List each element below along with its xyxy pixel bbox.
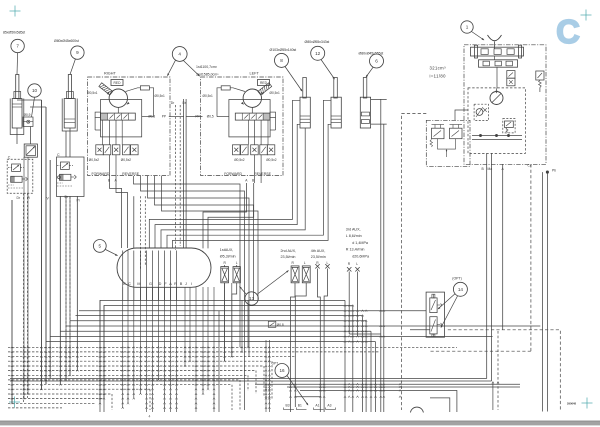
svg-text:321cm³: 321cm³ [430, 65, 447, 70]
svg-text:L: L [327, 261, 329, 265]
wire staircase right-unit [142, 129, 173, 131]
label 0,5x1 right-R [155, 94, 166, 98]
svg-text:FORWARD: FORWARD [92, 172, 110, 176]
wire [295, 397, 450, 412]
svg-text:A1: A1 [315, 404, 319, 408]
svg-text:Ø5,3l/min: Ø5,3l/min [220, 255, 236, 259]
svg-text:290648: 290648 [567, 402, 576, 406]
svg-text:1st1100,7cm²: 1st1100,7cm² [196, 65, 218, 69]
label 0,5x2 right-L [89, 158, 100, 162]
svg-text:B: B [180, 282, 183, 286]
pump assembly dashdot box [464, 45, 546, 165]
svg-text:M: M [137, 282, 140, 286]
wire corner right pair [10, 379, 492, 382]
port X 3rdR [347, 267, 351, 271]
label 0,5x2 left-R [266, 158, 277, 162]
svg-text:L: L [356, 262, 358, 266]
svg-text:RED: RED [260, 81, 268, 85]
wire long dashed [402, 114, 427, 411]
svg-text:E: E [123, 282, 126, 286]
servo sub [503, 119, 515, 133]
labels B3 B1 A1 A3 [286, 404, 332, 408]
valve block V2 [47, 153, 85, 203]
label OPT [452, 277, 462, 281]
cylinder CYL12 [331, 78, 341, 129]
wire 3rd aux corner stubs [349, 334, 381, 336]
wire [208, 183, 254, 248]
label R L 4th [316, 261, 328, 265]
svg-text:Ø0,5x1: Ø0,5x1 [155, 94, 166, 98]
wire [255, 383, 520, 385]
bracket B3 [283, 408, 294, 410]
label R L 1st [224, 261, 238, 265]
callout circle 16 [275, 364, 289, 378]
port X 4thR [315, 264, 319, 268]
wire bundle oval crossing [123, 251, 177, 301]
label 0,5x1 left-R [270, 91, 281, 95]
cylinder CYL8 [300, 78, 310, 129]
wire [300, 391, 457, 413]
label 0,3 PP right [148, 115, 166, 119]
svg-text:4th AUX,: 4th AUX, [311, 249, 326, 253]
svg-text:Ø0,5x2: Ø0,5x2 [121, 158, 132, 162]
leader line 9 [70, 59, 76, 75]
wire [41, 100, 43, 390]
port dot Pb [546, 171, 548, 173]
svg-text:REVERSE: REVERSE [254, 172, 271, 176]
label 3rdAUX block [346, 228, 370, 259]
callout circle 6 [370, 54, 384, 68]
svg-text:Ø0,5: Ø0,5 [207, 115, 214, 119]
footer gray bar [0, 421, 600, 426]
wire bus right droppers [345, 300, 376, 412]
wire [225, 265, 237, 267]
callout circle 10 [28, 84, 41, 97]
clutch bell [488, 35, 502, 49]
wire PP solid pair [184, 99, 187, 249]
svg-text:C: C [8, 156, 11, 160]
svg-text:RED: RED [114, 81, 122, 85]
wire bus mid horizontals [46, 300, 540, 341]
label 321cm3 [430, 65, 447, 70]
transmission gearbox [471, 45, 524, 88]
label 0,5x2 left-L [234, 158, 245, 162]
label RIGHT [104, 72, 116, 76]
valve at gearbox [507, 71, 515, 86]
cylinder CYL7 [10, 75, 24, 135]
charge pump sub [474, 104, 488, 120]
svg-text:2nd1585,0cm²: 2nd1585,0cm² [196, 72, 219, 76]
leader line 12 [321, 60, 336, 81]
label Pb [552, 169, 556, 173]
svg-text:(OPT): (OPT) [452, 277, 462, 281]
wire [49, 160, 51, 379]
aux valve 1R [221, 267, 229, 283]
wire [17, 127, 31, 145]
label 0,5x2 right-R [121, 158, 132, 162]
wire dashed right [430, 350, 531, 352]
svg-text:REVERSE: REVERSE [122, 172, 139, 176]
callout circle 14 [453, 282, 467, 296]
leader lines 13 [238, 270, 289, 295]
svg-text:23,5l/min: 23,5l/min [311, 255, 326, 259]
wire [232, 283, 237, 357]
junction ticks pair corner [492, 382, 499, 384]
label 80x45x555st [359, 52, 384, 56]
wire [546, 172, 548, 411]
svg-text:Ø0,3: Ø0,3 [148, 115, 155, 119]
wire [491, 153, 493, 381]
svg-text:B3: B3 [286, 404, 290, 408]
leader line 16 [287, 376, 309, 406]
pump circle [490, 89, 503, 105]
svg-text:OPT: OPT [272, 362, 279, 366]
valve block V1 [7, 156, 33, 201]
wire [371, 99, 387, 124]
callout circle 4 [172, 47, 187, 62]
cylinder CYL6 [360, 78, 370, 129]
svg-text:Ø80xØ55x343st: Ø80xØ55x343st [305, 40, 330, 44]
section letter C [556, 13, 580, 50]
label 85x50x585st [3, 31, 25, 35]
wire band dashed horizontals [8, 347, 457, 408]
label A B left [245, 178, 255, 182]
junction ticks band [11, 346, 271, 409]
leader line 8 [285, 67, 303, 93]
svg-text:J: J [185, 282, 187, 286]
label 1stAUX [220, 248, 236, 258]
svg-text:RIGHT: RIGHT [104, 72, 116, 76]
leader line 5 [106, 250, 119, 257]
svg-text:10: 10 [32, 88, 38, 93]
svg-text:9: 9 [76, 50, 79, 55]
junction ticks mid [265, 305, 401, 398]
wire [383, 124, 385, 412]
label 1st/2nd displacement [196, 65, 219, 76]
relief right [536, 71, 544, 92]
aux valve 2R [291, 266, 299, 283]
aux valve 2L [302, 266, 310, 283]
bracket A1 [313, 408, 323, 410]
wire [155, 124, 300, 248]
svg-text:L: L [236, 261, 238, 265]
wire [17, 100, 46, 107]
svg-text:C: C [57, 153, 60, 157]
leader line 10 [32, 97, 35, 117]
svg-text:4: 4 [149, 415, 151, 419]
page number 4 [149, 415, 151, 419]
label 103x55x140st [270, 48, 297, 52]
label 80x45x600st [54, 39, 79, 43]
pump dashed box [468, 88, 525, 153]
callout circle 9 [71, 46, 84, 59]
port X 3rdL [355, 267, 359, 271]
label FORWARD left [224, 172, 242, 176]
svg-text:d 1,4MPa: d 1,4MPa [352, 241, 369, 245]
tank letters [123, 282, 192, 286]
svg-text:I: I [191, 282, 192, 286]
label 80x55x343st [305, 40, 330, 44]
wire dashed OPT right [448, 330, 561, 410]
wire dashed Dr/Pi V1 [24, 193, 28, 402]
wire [66, 128, 70, 157]
leader line 6 [365, 67, 373, 78]
svg-text:3rd AUX,: 3rd AUX, [346, 228, 361, 232]
label FORWARD right [92, 172, 110, 176]
svg-text:B1: B1 [298, 404, 302, 408]
svg-text:4: 4 [178, 52, 181, 57]
check block X [24, 144, 37, 157]
label PP 0,5 left [195, 115, 214, 119]
indicator RED right [111, 80, 123, 86]
wire [59, 197, 61, 385]
tank oval [117, 248, 211, 287]
registration cross bottom-left [9, 397, 20, 408]
registration cross top-right [581, 10, 592, 21]
svg-text:FORWARD: FORWARD [224, 172, 242, 176]
wire [380, 99, 382, 412]
cylinder CYL9 [62, 75, 77, 132]
svg-text:L 8,6l/min: L 8,6l/min [346, 234, 362, 238]
wire [429, 390, 431, 392]
label Ca [528, 164, 532, 168]
left valve block of pump [426, 120, 470, 166]
port X 4thL [325, 264, 329, 268]
svg-text:5: 5 [99, 244, 102, 249]
svg-text:G: G [149, 282, 152, 286]
wire [291, 283, 307, 412]
wire [161, 128, 305, 248]
label LEFT [250, 72, 260, 76]
svg-text:85xØ50x585st: 85xØ50x585st [3, 31, 25, 35]
wire [116, 183, 128, 248]
aux valve 1L [233, 267, 240, 283]
port dots [472, 134, 522, 139]
svg-text:d20,6MPa: d20,6MPa [352, 254, 370, 258]
wire [542, 172, 544, 411]
label 2ndAUX [281, 249, 297, 259]
wire band verticals [12, 100, 269, 412]
wire [492, 383, 494, 411]
svg-text:Ø0,9: Ø0,9 [24, 113, 31, 117]
wire [287, 386, 520, 388]
wire pump-left-block [455, 110, 468, 120]
svg-text:6: 6 [375, 59, 378, 64]
wire band dashed corners [112, 361, 272, 410]
label ports B Ma A [482, 167, 505, 171]
registration cross bottom-right [567, 398, 592, 409]
wire PP stubs [169, 116, 203, 118]
wire bus left stubs [100, 300, 219, 412]
restrictor 0,9 [23, 113, 33, 127]
wire [110, 183, 122, 248]
label i=11/80 [430, 73, 447, 78]
wire [486, 153, 488, 378]
label REVERSE right [122, 172, 139, 176]
wire dashed short [497, 331, 499, 410]
callout circle 13 [245, 292, 258, 305]
svg-text:C: C [556, 13, 580, 50]
hydro motor unit RIGHT [88, 77, 170, 183]
OPT valve stack [426, 292, 444, 337]
leader line 1 [472, 32, 485, 42]
label REVERSE left [254, 172, 271, 176]
wire staircase [134, 176, 259, 410]
wire dashed Dr/Pi V2 [66, 197, 70, 381]
svg-text:8: 8 [280, 58, 283, 63]
wire [224, 283, 226, 361]
svg-text:Ø0,5x2: Ø0,5x2 [234, 158, 245, 162]
wire [410, 329, 430, 331]
callout circle 8 [275, 53, 289, 67]
svg-text:2nd AUX,: 2nd AUX, [281, 249, 297, 253]
svg-text:16: 16 [279, 368, 285, 373]
svg-text:Ø103xØ55x140st: Ø103xØ55x140st [270, 48, 297, 52]
label 0,5x1 left-L [203, 94, 214, 98]
svg-text:Ø0,5x1: Ø0,5x1 [203, 94, 214, 98]
svg-text:1stAUX,: 1stAUX, [220, 248, 234, 252]
svg-text:Ø0,5x1: Ø0,5x1 [87, 91, 98, 95]
wire [349, 272, 357, 337]
wire [149, 100, 300, 248]
indicator RED left [258, 80, 270, 86]
wire Dr dashed pair [176, 105, 181, 250]
callout circle 1 [461, 21, 473, 33]
wire [175, 249, 177, 251]
svg-text:A3: A3 [327, 404, 331, 408]
wire [11, 200, 13, 403]
callout circle 12 [311, 46, 325, 60]
bracket A3 [326, 408, 336, 410]
svg-text:L: L [304, 261, 306, 265]
svg-text:Pb: Pb [552, 169, 556, 173]
label R L 3rd [348, 262, 358, 266]
svg-text:14: 14 [458, 287, 464, 292]
label 4thAUX [311, 249, 326, 259]
svg-text:12: 12 [315, 51, 321, 56]
wire dashed into oval [141, 196, 146, 270]
svg-text:Ø0,5x2: Ø0,5x2 [89, 158, 100, 162]
svg-text:C: C [128, 282, 131, 286]
wire dashed [530, 164, 532, 351]
registration cross top-left [10, 6, 21, 17]
svg-text:Ø0,5x2: Ø0,5x2 [266, 158, 277, 162]
wire corner bl [10, 390, 430, 392]
wire [167, 100, 331, 248]
wire [502, 164, 504, 330]
svg-text:7: 7 [16, 44, 19, 49]
label B A right [108, 178, 118, 182]
svg-text:23,5l/min: 23,5l/min [281, 255, 296, 259]
svg-text:PP: PP [162, 115, 166, 119]
callout circle 7 [11, 39, 24, 52]
bracket B1 [296, 408, 306, 410]
svg-text:i=11/80: i=11/80 [430, 73, 447, 78]
label R L 2nd [292, 261, 306, 265]
label Dr Dr [171, 101, 187, 105]
leader lines 4 [166, 60, 200, 77]
svg-text:LEFT: LEFT [250, 72, 260, 76]
wire [76, 197, 78, 371]
arc bottom [410, 407, 423, 412]
leader lines 14 [437, 294, 457, 329]
wire [133, 196, 135, 248]
label OPT small [272, 362, 279, 366]
label 0,5x1 right-L [87, 91, 98, 95]
svg-text:R 13,4l/min: R 13,4l/min [346, 248, 365, 252]
svg-text:Ø0,8: Ø0,8 [277, 323, 284, 327]
leader line 7 [16, 53, 19, 75]
wire [45, 107, 47, 384]
wire [173, 124, 332, 248]
svg-text:Ø80xØ45x600st: Ø80xØ45x600st [54, 39, 79, 43]
restrictor 0,8 [268, 321, 284, 327]
svg-text:1: 1 [466, 25, 469, 30]
wire [203, 183, 247, 248]
callout circle 5 [93, 240, 106, 253]
wire [318, 269, 328, 413]
svg-text:Ø0,5x1: Ø0,5x1 [270, 91, 281, 95]
hydro motor unit LEFT [201, 77, 283, 183]
svg-text:D: D [159, 282, 162, 286]
